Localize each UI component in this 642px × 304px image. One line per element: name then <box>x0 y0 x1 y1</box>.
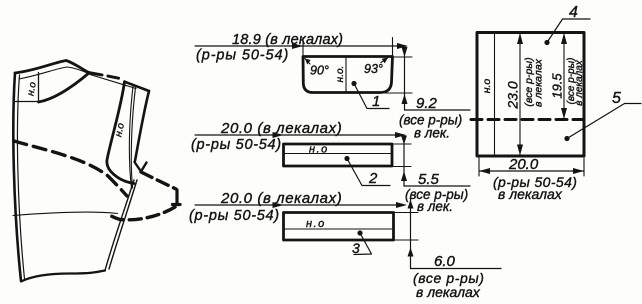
dashed armhole upper curve <box>141 172 176 189</box>
svg-text:н.о: н.о <box>113 122 127 138</box>
band piece 2 outline <box>284 144 393 166</box>
dim 18.9 extension line left <box>302 38 304 56</box>
svg-text:19.5: 19.5 <box>549 73 564 99</box>
extension line right top (piece3) <box>394 212 418 214</box>
armhole notch zigzag <box>135 162 147 172</box>
svg-text:в лекалах: в лекалах <box>416 284 481 300</box>
svg-text:в лекалах: в лекалах <box>532 58 544 107</box>
dashed style line across piece <box>14 141 127 196</box>
svg-text:20.0: 20.0 <box>508 156 539 173</box>
dim 23.0 arrow top <box>517 33 523 44</box>
wire: dashed old shoulder continuation <box>91 73 120 79</box>
dim 23.0 arrow bottom <box>517 145 523 156</box>
svg-text:23.0: 23.0 <box>505 81 521 109</box>
angle 90 arrow <box>305 59 310 65</box>
extension line right bottom (piece3) <box>394 239 418 241</box>
dim 18.9 arrow mid <box>292 43 303 49</box>
waist line across piece <box>13 212 118 215</box>
node: grain box vertical line <box>38 73 40 103</box>
angle 93 arrow <box>381 58 388 63</box>
dim 5.5 arrow lower <box>401 171 407 181</box>
dim 18.9 line <box>195 45 406 47</box>
neckline thick scoop <box>39 73 90 103</box>
svg-text:93°: 93° <box>364 62 383 76</box>
wire: left edge outer line <box>13 73 21 281</box>
wire: bottom edge <box>21 271 105 282</box>
svg-text:5.5: 5.5 <box>418 171 440 188</box>
dim 9.2 arrow up <box>402 94 408 104</box>
dim 6.0 text underline <box>411 268 502 270</box>
dim 5.5 text underline <box>404 185 470 187</box>
leader for label 4 <box>563 18 591 20</box>
svg-text:в лек.: в лек. <box>417 199 453 214</box>
dim 20.0 arrow left <box>479 168 490 174</box>
extension line right top (piece2) <box>392 143 411 145</box>
svg-text:1: 1 <box>372 93 380 110</box>
band piece 3 outline <box>284 213 394 241</box>
dim 9.2 arrow down <box>402 47 408 57</box>
svg-text:в лек.: в лек. <box>414 126 450 141</box>
svg-text:в лекалах: в лекалах <box>498 186 563 202</box>
extension line right bottom (piece2) <box>389 166 411 168</box>
extension of top edge right for 9.2 <box>394 56 412 58</box>
dim 20.0 line (piece 2) <box>195 134 404 136</box>
dim 19.5 arrow top <box>561 33 567 44</box>
svg-text:(р-ры 50-54): (р-ры 50-54) <box>191 137 282 153</box>
wire: left edge inner (seam allowance) line <box>17 75 24 279</box>
dim 6.0 vertical line <box>410 199 412 269</box>
dim 20.0 arrow mid (piece 2) <box>273 132 284 138</box>
dashed hook vertical at right <box>175 190 178 203</box>
pocket piece 4 outline <box>477 33 584 157</box>
leader for label 1 <box>354 84 389 109</box>
svg-text:6.0: 6.0 <box>434 253 456 270</box>
svg-text:9.2: 9.2 <box>416 95 438 112</box>
shoulder band right edge <box>135 91 149 161</box>
dim 19.5 arrow bottom <box>561 108 567 119</box>
shoulder band top edge <box>125 82 150 91</box>
svg-text:4: 4 <box>569 4 578 21</box>
svg-text:н.о: н.о <box>481 79 493 94</box>
wire: shoulder outer thick curve <box>15 61 90 74</box>
collar piece 1 outline <box>303 57 393 93</box>
svg-text:20.0 (в лекалах): 20.0 (в лекалах) <box>220 120 342 137</box>
armhole thick curve <box>107 82 134 184</box>
svg-text:н.о: н.о <box>26 81 39 97</box>
svg-text:н.о: н.о <box>306 218 326 230</box>
dim 20.0 line below pocket <box>479 170 584 172</box>
svg-text:2: 2 <box>368 170 378 187</box>
svg-text:18.9 (в лекалах): 18.9 (в лекалах) <box>232 32 343 48</box>
svg-text:20.0 (в лекалах): 20.0 (в лекалах) <box>220 190 342 207</box>
leader for label 3 <box>354 233 372 255</box>
band inner twin line a <box>129 87 133 189</box>
svg-text:5: 5 <box>612 90 621 107</box>
dim 5.5 vertical line <box>403 136 405 186</box>
svg-text:н.о: н.о <box>309 144 329 156</box>
side seam inner line <box>109 180 137 269</box>
dashed hook foot <box>173 203 181 206</box>
dim 20.0 extension left below pocket <box>478 158 480 176</box>
wire: thin old shoulder line to band <box>90 75 136 89</box>
side seam outer line <box>105 180 134 271</box>
dim 23.0 vertical line <box>519 33 521 156</box>
dim 9.2 text underline <box>405 109 471 111</box>
leader for label 2 <box>347 159 390 186</box>
dim 20.0 arrow right <box>573 168 584 174</box>
pocket fold dashed line <box>471 118 585 121</box>
svg-text:(р-ры 50-54): (р-ры 50-54) <box>196 48 289 64</box>
dim 20.0 extension right below pocket <box>583 158 585 176</box>
dim 19.5 vertical line <box>563 33 565 119</box>
svg-text:н.о.: н.о. <box>335 66 346 83</box>
dim 6.0 arrow lower <box>408 248 414 257</box>
dim 18.9 extension line right <box>392 38 394 56</box>
band inner twin line b <box>131 88 135 189</box>
dim 20.0 arrow right (piece 2) <box>395 132 406 138</box>
node: grain box bottom line <box>16 101 39 103</box>
svg-text:90°: 90° <box>310 64 329 78</box>
svg-text:в лекалах: в лекалах <box>574 59 585 106</box>
dim 5.5 arrow upper <box>401 136 407 145</box>
extension of bottom edge right for 9.2 <box>385 92 412 94</box>
band piece 2 inner line <box>284 153 391 155</box>
band piece 3 inner line <box>284 228 393 230</box>
wire: shoulder inner thin seam line <box>19 67 89 79</box>
collar centre line <box>345 57 347 92</box>
dim 6.0 arrow top <box>408 200 414 209</box>
svg-text:(р-ры 50-54): (р-ры 50-54) <box>189 208 280 224</box>
pocket inner vertical line <box>494 33 496 156</box>
dim 18.9 arrow right <box>397 43 408 49</box>
dim 20.0 line (piece 3) <box>195 204 404 206</box>
dashed armhole lower return curve <box>108 207 175 220</box>
dim 20.0 arrow mid (piece 3) <box>273 202 284 208</box>
dim 20.0 arrow right (piece 3) <box>396 202 407 208</box>
leader for label 5 <box>625 103 642 105</box>
svg-text:3: 3 <box>352 240 360 256</box>
dim 9.2 vertical line <box>404 47 406 110</box>
